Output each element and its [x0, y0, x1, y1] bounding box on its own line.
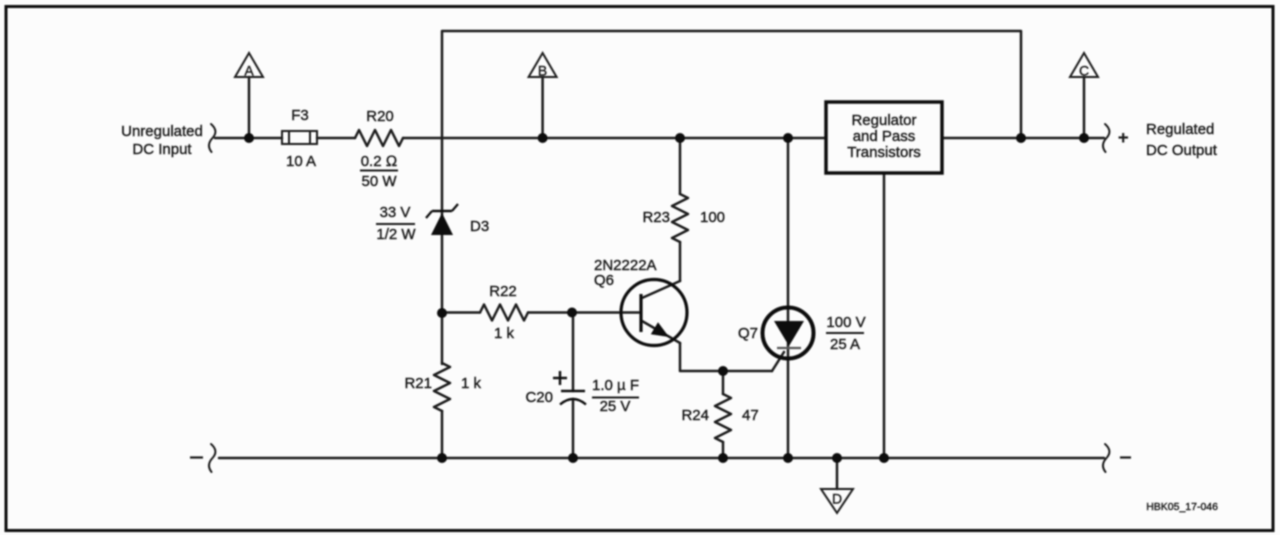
svg-text:Unregulated: Unregulated [121, 123, 203, 140]
svg-text:25 A: 25 A [830, 336, 860, 353]
svg-text:and Pass: and Pass [853, 128, 916, 145]
svg-text:F3: F3 [291, 107, 309, 124]
svg-text:R20: R20 [366, 108, 394, 125]
svg-text:50 W: 50 W [361, 173, 397, 190]
svg-text:A: A [244, 63, 254, 79]
svg-text:25 V: 25 V [600, 398, 631, 415]
svg-text:47: 47 [742, 407, 759, 424]
svg-text:Transistors: Transistors [847, 144, 921, 161]
svg-text:1.0 µ F: 1.0 µ F [592, 377, 639, 394]
svg-text:100: 100 [700, 209, 725, 226]
svg-text:1 k: 1 k [494, 325, 515, 342]
svg-text:HBK05_17-046: HBK05_17-046 [1146, 501, 1218, 513]
svg-text:0.2 Ω: 0.2 Ω [361, 153, 398, 170]
svg-text:DC Output: DC Output [1146, 142, 1218, 159]
svg-text:R22: R22 [489, 283, 517, 300]
svg-text:Regulator: Regulator [851, 112, 916, 129]
svg-text:R24: R24 [681, 407, 709, 424]
svg-text:10 A: 10 A [286, 153, 316, 170]
svg-text:D3: D3 [470, 218, 489, 235]
svg-text:Q6: Q6 [594, 272, 614, 289]
svg-text:R23: R23 [642, 209, 670, 226]
svg-text:D: D [832, 491, 842, 507]
svg-text:33 V: 33 V [380, 204, 411, 221]
svg-text:C20: C20 [525, 389, 553, 406]
svg-text:DC Input: DC Input [132, 141, 192, 158]
svg-text:1 k: 1 k [461, 375, 482, 392]
svg-text:1/2 W: 1/2 W [376, 226, 416, 243]
svg-text:C: C [1079, 63, 1089, 79]
svg-text:100 V: 100 V [826, 314, 865, 331]
svg-text:B: B [538, 63, 547, 79]
svg-text:Regulated: Regulated [1146, 121, 1214, 138]
svg-text:Q7: Q7 [738, 325, 758, 342]
svg-text:R21: R21 [404, 375, 432, 392]
